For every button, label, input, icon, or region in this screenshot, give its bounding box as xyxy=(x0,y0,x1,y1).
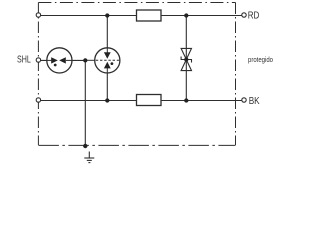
junction ground node on boundary xyxy=(83,144,87,148)
junction top of GDT2 branch xyxy=(105,13,109,17)
junction top of TVS branch xyxy=(184,13,188,17)
ground symbol xyxy=(84,152,94,163)
svg-text:BK: BK xyxy=(249,96,260,107)
wire vertical ground branch xyxy=(84,60,86,146)
wire bottom BK line xyxy=(38,100,244,102)
terminal BK xyxy=(242,98,246,102)
junction bottom of TVS branch xyxy=(184,98,188,102)
protected-zone boundary bottom (dash-dot) xyxy=(38,144,235,146)
wire top RD line xyxy=(38,15,244,17)
gas discharge tube G1 (horizontal spark gap) xyxy=(47,48,72,73)
wire SHL line xyxy=(38,59,85,61)
terminal SHL (top-left, unlabeled) xyxy=(36,13,40,17)
terminal RD xyxy=(242,13,246,17)
TVS diode D1 (bidirectional suppressor) xyxy=(181,48,191,70)
svg-text:protegido: protegido xyxy=(248,55,273,64)
terminal bottom-left (unlabeled) xyxy=(36,98,40,102)
wire vertical through TVS xyxy=(185,16,187,101)
resistor R2 (bottom) xyxy=(137,95,162,106)
svg-text:RD: RD xyxy=(248,10,260,21)
resistor R1 (top) xyxy=(137,10,162,21)
gas discharge tube G2 (vertical spark gap) xyxy=(85,48,120,73)
junction bottom of GDT2 branch xyxy=(105,98,109,102)
wire vertical through GDT2 xyxy=(106,16,108,101)
terminal SHL xyxy=(36,58,40,62)
junction SHL node xyxy=(83,58,87,62)
svg-text:SHL: SHL xyxy=(17,54,31,65)
protected-zone boundary top/left/right (dash-dot) xyxy=(37,3,39,146)
